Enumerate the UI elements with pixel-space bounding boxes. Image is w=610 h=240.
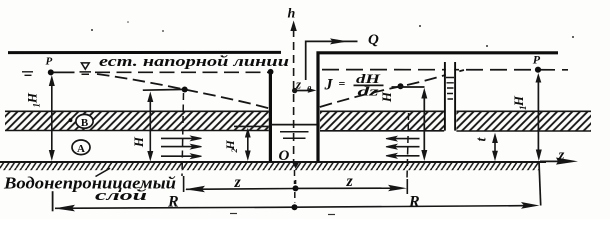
svg-text:h: h: [288, 7, 296, 22]
svg-text:2: 2: [229, 148, 239, 154]
svg-text:В: В: [81, 117, 89, 129]
svg-text:H: H: [379, 91, 394, 103]
svg-text:=: =: [339, 77, 346, 91]
svg-text:А: А: [77, 143, 85, 155]
svg-text:H: H: [131, 136, 146, 148]
svg-text:z: z: [295, 76, 302, 91]
svg-text:R: R: [408, 194, 420, 211]
svg-text:R: R: [167, 194, 179, 211]
svg-text:t: t: [475, 136, 490, 141]
svg-text:1: 1: [32, 103, 42, 108]
svg-text:слой: слой: [95, 188, 147, 204]
svg-text:z: z: [558, 148, 565, 164]
svg-text:Q: Q: [368, 32, 379, 48]
svg-text:O: O: [279, 148, 290, 164]
svg-text:H: H: [25, 92, 40, 104]
svg-text:z: z: [346, 173, 354, 190]
svg-text:P: P: [533, 53, 541, 67]
svg-text:P: P: [46, 55, 53, 67]
svg-text:Водонепроницаемый: Водонепроницаемый: [3, 174, 176, 193]
svg-text:0: 0: [307, 84, 312, 94]
svg-text:J: J: [324, 77, 334, 94]
svg-text:1: 1: [518, 106, 528, 111]
svg-text:H: H: [511, 95, 526, 107]
svg-text:ест. напорной линии: ест. напорной линии: [99, 54, 289, 70]
svg-text:z: z: [234, 174, 242, 191]
